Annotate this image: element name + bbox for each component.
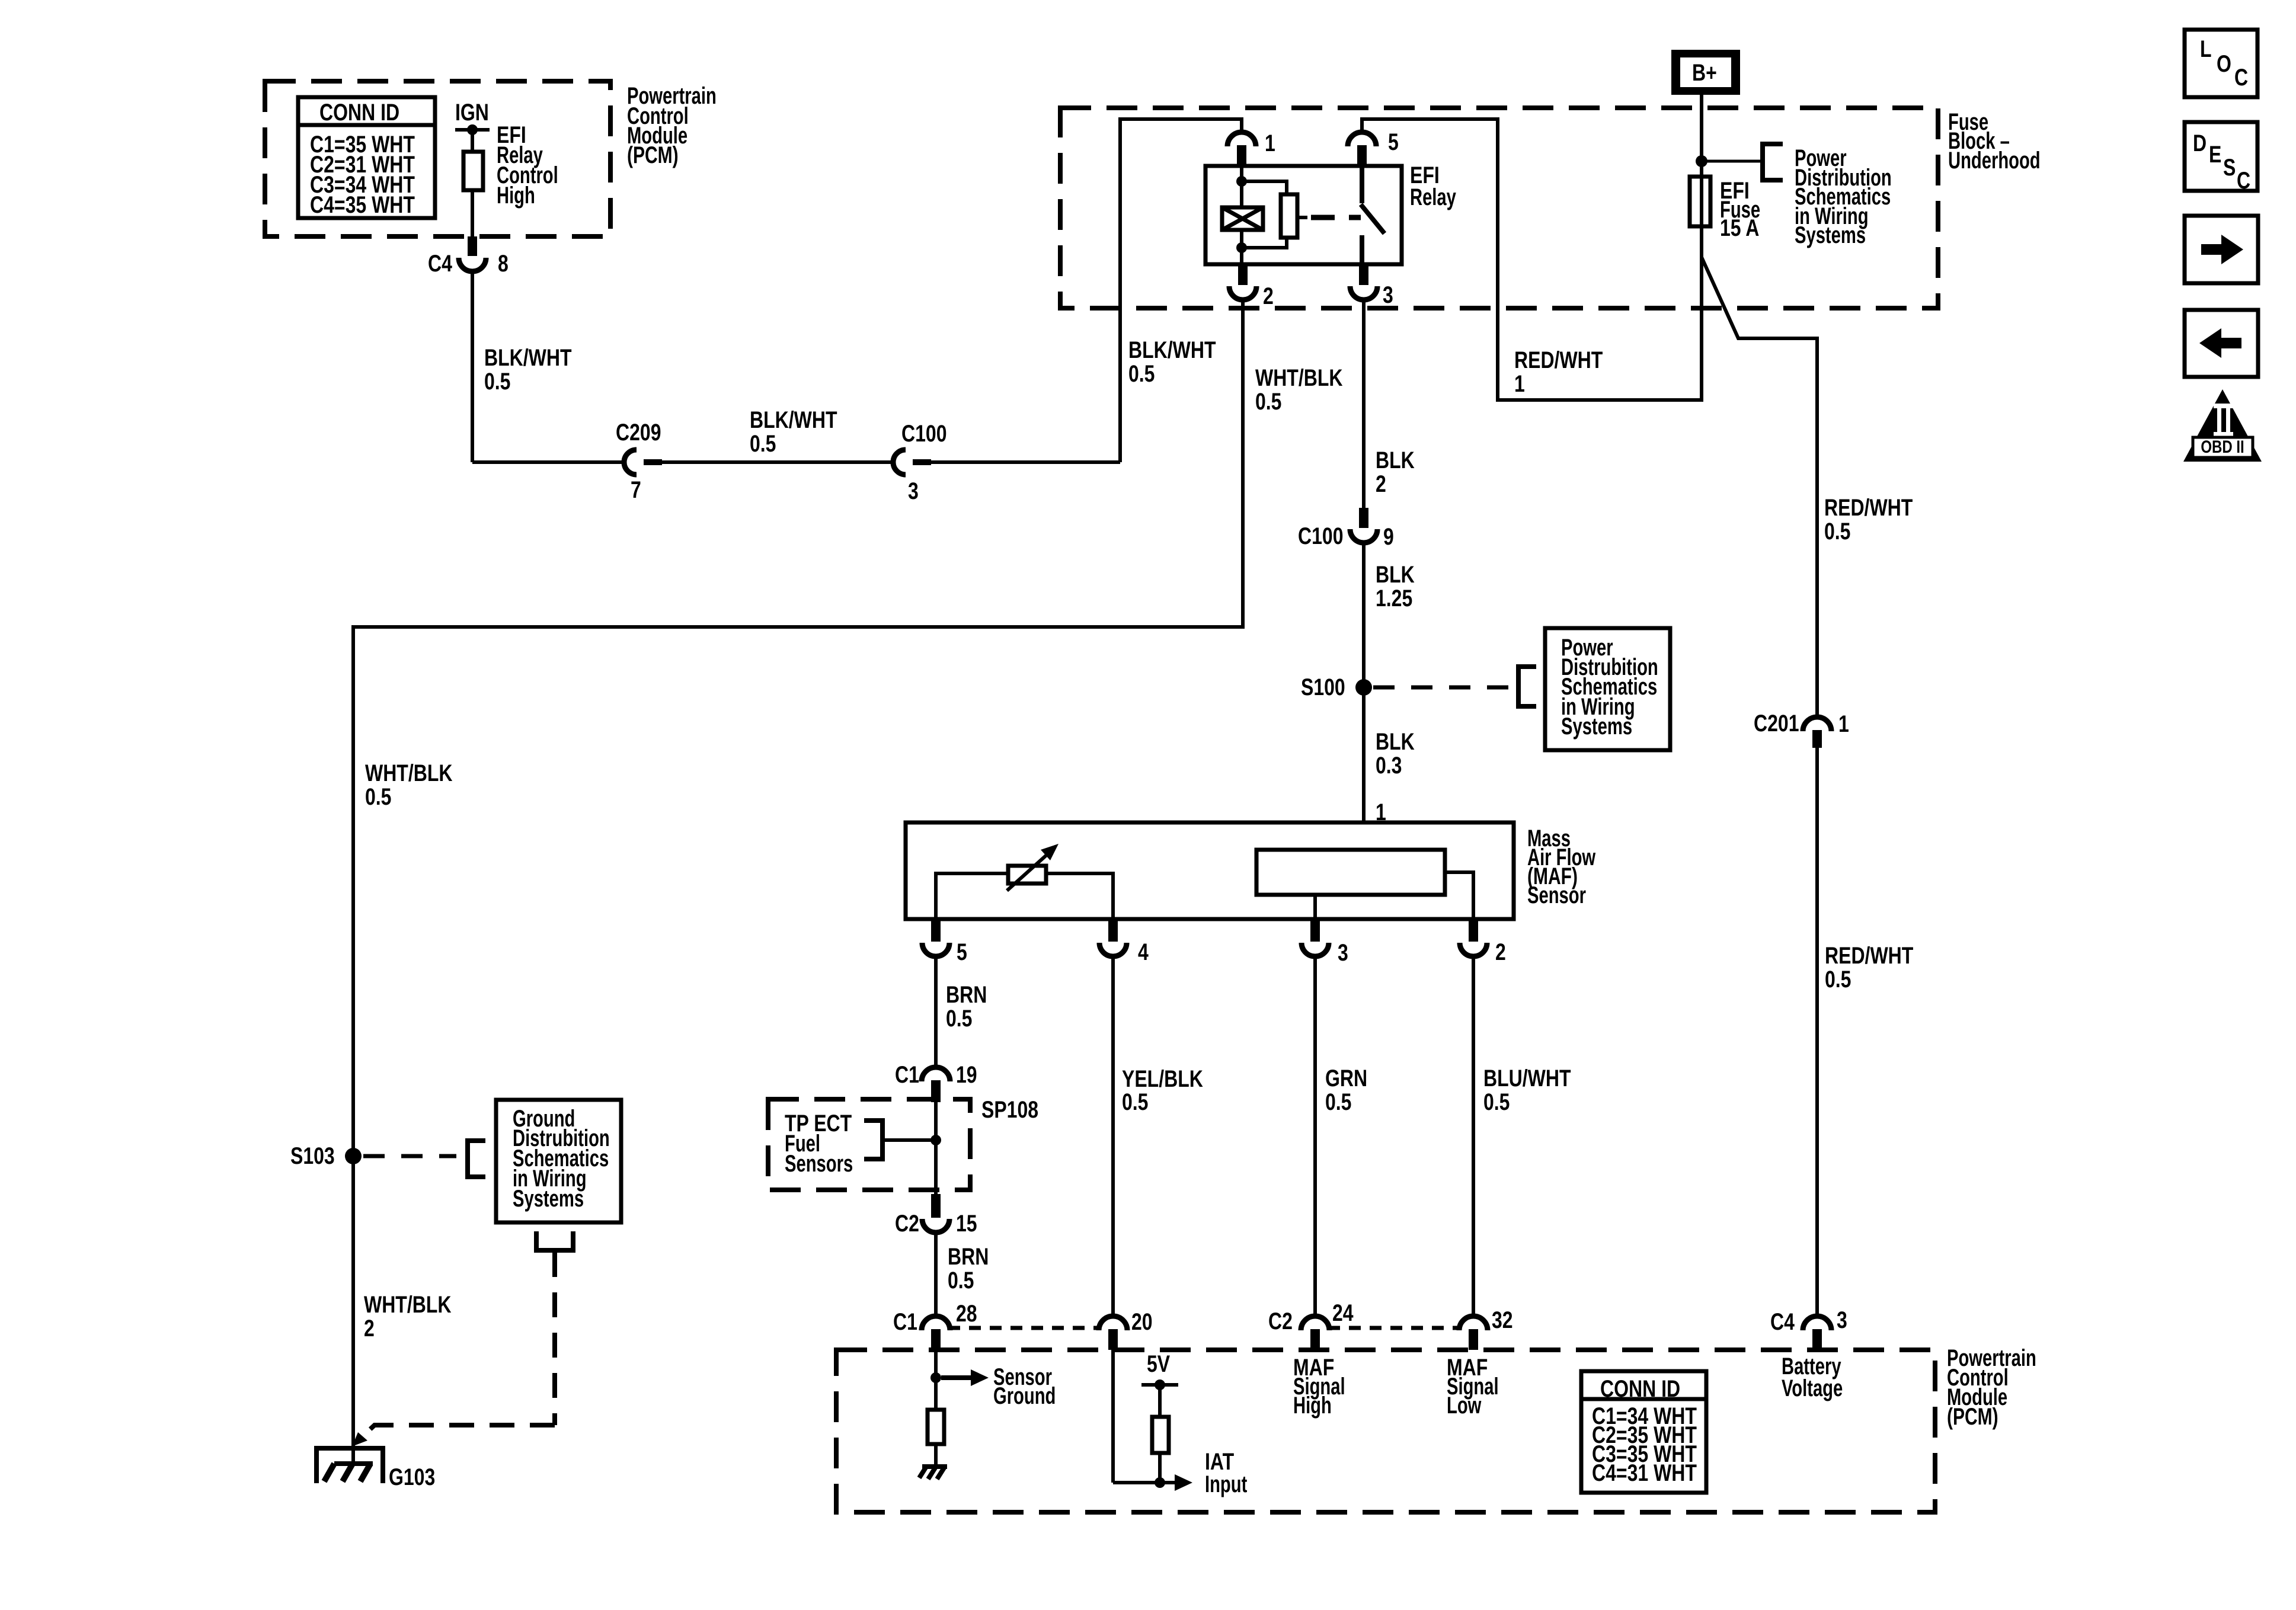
svg-text:C4: C4	[428, 250, 452, 277]
svg-text:BRN: BRN	[948, 1243, 989, 1270]
wire relay pin 3 down	[1362, 300, 1366, 510]
IAT input branch	[1113, 1350, 1248, 1497]
connector row dashed link C1/28 to 20	[948, 1326, 1100, 1330]
svg-text:20: 20	[1131, 1308, 1153, 1335]
wire C4/8 down to junction row	[471, 271, 474, 462]
Powertrain Control Module (PCM) box top-left	[265, 81, 717, 236]
svg-text:0.5: 0.5	[1483, 1089, 1510, 1115]
svg-text:(PCM): (PCM)	[627, 142, 679, 168]
label WHT/BLK 0.5 (left riser)	[365, 760, 453, 810]
svg-text:CONN ID: CONN ID	[1600, 1375, 1680, 1402]
label BRN 0.5 (lower)	[948, 1243, 989, 1294]
icon arrow left	[2185, 310, 2258, 377]
svg-text:Underhood: Underhood	[1948, 148, 2041, 174]
svg-text:S: S	[2223, 154, 2236, 181]
junction node at fuse top	[1696, 155, 1707, 167]
wire relay pin 2 to left riser	[353, 300, 1243, 1154]
svg-text:5V: 5V	[1147, 1350, 1170, 1377]
wire heater to pin 2	[1445, 872, 1473, 919]
bracket to power distrubition box	[1518, 667, 1536, 706]
svg-text:SP108: SP108	[981, 1096, 1038, 1123]
label WHT/BLK 0.5 (relay pin 2 wire)	[1255, 364, 1343, 415]
svg-text:5: 5	[1388, 129, 1399, 155]
svg-text:1.25: 1.25	[1376, 585, 1412, 612]
label BLK/WHT 0.5 (between C209 and C100)	[750, 406, 837, 457]
fuse EFI 15A	[1690, 177, 1760, 241]
wire MAF pin 4 down	[1111, 956, 1115, 1317]
svg-text:G103: G103	[389, 1464, 435, 1490]
connector C100 pin 9	[1298, 508, 1394, 550]
label RED/WHT 0.5 (lower)	[1825, 942, 1913, 993]
connector C1 pin 28	[893, 1300, 977, 1350]
ground (sensor ground internal)	[919, 1467, 947, 1479]
sensor ground branch in PCM	[930, 1350, 1056, 1410]
svg-text:19: 19	[956, 1061, 977, 1088]
label BLK/WHT 0.5	[484, 344, 572, 395]
svg-text:0.5: 0.5	[484, 368, 510, 395]
Ground Distrubition Schematics box	[496, 1100, 621, 1222]
svg-text:C100: C100	[1298, 523, 1344, 549]
wire C209 to C100	[662, 460, 893, 464]
wire fuse to relay pin 5 feed	[1362, 119, 1702, 400]
svg-text:BLK: BLK	[1376, 728, 1415, 755]
MAF internal wiring to pin 4	[1045, 873, 1113, 919]
wire IGN to resistor	[471, 130, 474, 152]
wire C100/9 to S100	[1362, 543, 1366, 687]
bracket TP ECT sensors to splice	[864, 1121, 931, 1159]
svg-text:0.5: 0.5	[1824, 518, 1850, 545]
MAF pin 4 connector	[1099, 919, 1149, 965]
wire heater to pin 3	[1313, 895, 1317, 919]
resistor IAT pull-up	[1152, 1417, 1169, 1453]
icon LOC	[2185, 30, 2257, 97]
svg-text:Low: Low	[1447, 1393, 1482, 1419]
wire C2/15 down to C1/28	[934, 1233, 938, 1317]
CONN ID table (PCM bottom)	[1581, 1371, 1706, 1493]
connector C4 pin 8	[428, 236, 509, 277]
svg-text:BLK/WHT: BLK/WHT	[1128, 337, 1216, 363]
svg-text:C201: C201	[1754, 710, 1799, 737]
relay switch	[1361, 166, 1384, 264]
svg-text:C100: C100	[901, 420, 947, 447]
svg-text:2: 2	[1495, 939, 1506, 965]
wire S103 down to G103	[351, 1156, 355, 1464]
relay coil circuit	[1236, 166, 1287, 264]
MAF pin 2 connector	[1460, 919, 1506, 965]
svg-text:0.5: 0.5	[365, 783, 391, 810]
label BRN 0.5	[946, 981, 987, 1032]
bracket below ground distrubition box	[536, 1231, 573, 1250]
connector pin 32	[1459, 1307, 1513, 1350]
label BLK/WHT 0.5 (riser)	[1128, 337, 1216, 387]
svg-text:8: 8	[498, 250, 509, 277]
svg-text:1: 1	[1514, 370, 1525, 397]
CONN ID table (PCM top)	[298, 97, 435, 218]
svg-text:Relay: Relay	[1410, 184, 1456, 211]
connector C4 pin 3	[1770, 1307, 1847, 1350]
svg-text:15 A: 15 A	[1720, 215, 1759, 241]
svg-text:WHT/BLK: WHT/BLK	[365, 760, 453, 786]
label RED/WHT 0.5 (upper)	[1824, 494, 1913, 545]
resistor sensor ground pulldown	[928, 1410, 944, 1444]
B+ terminal	[1671, 50, 1740, 95]
label YEL/BLK 0.5	[1122, 1065, 1203, 1115]
svg-text:BLK: BLK	[1376, 447, 1415, 473]
svg-text:BLK: BLK	[1376, 561, 1415, 588]
svg-text:BLK/WHT: BLK/WHT	[750, 406, 837, 433]
connector pin 20	[1099, 1308, 1153, 1350]
variable resistor (MAF element)	[1007, 844, 1059, 891]
resistor EFI relay control (in PCM)	[463, 152, 483, 190]
svg-text:Input: Input	[1205, 1471, 1248, 1498]
svg-text:BRN: BRN	[946, 981, 987, 1008]
svg-text:RED/WHT: RED/WHT	[1825, 942, 1913, 969]
wire fuse branch diagonal to right riser	[1702, 257, 1817, 716]
label WHT/BLK 2	[364, 1291, 452, 1342]
svg-text:C1: C1	[895, 1061, 919, 1088]
dashed reference from S100	[1373, 686, 1512, 690]
wire B+ down to fuse	[1700, 95, 1703, 177]
svg-text:E: E	[2209, 141, 2221, 168]
splice S103	[290, 1142, 362, 1169]
relay coil (X box)	[1222, 207, 1263, 230]
Powertrain Control Module (PCM) box bottom	[836, 1345, 2036, 1512]
connector C100 pin 3	[893, 420, 947, 504]
svg-text:High: High	[497, 183, 535, 209]
svg-text:WHT/BLK: WHT/BLK	[364, 1291, 452, 1318]
svg-text:3: 3	[1837, 1307, 1847, 1333]
svg-text:Systems: Systems	[513, 1186, 584, 1212]
svg-text:C4: C4	[1770, 1308, 1795, 1335]
svg-text:S103: S103	[290, 1142, 335, 1169]
splice S100	[1301, 674, 1372, 700]
wire horizontal to C209	[472, 460, 624, 464]
svg-text:3: 3	[1383, 281, 1393, 308]
svg-text:0.5: 0.5	[1122, 1089, 1148, 1115]
svg-text:3: 3	[908, 478, 919, 504]
svg-text:0.3: 0.3	[1376, 752, 1402, 779]
svg-text:C1: C1	[893, 1308, 917, 1335]
svg-text:C2: C2	[895, 1210, 919, 1237]
svg-text:C2: C2	[1268, 1308, 1293, 1334]
connector C201 pin 1	[1754, 710, 1849, 748]
wire MAF pin 5 down	[934, 956, 938, 1068]
wire riser up to relay pin 1	[1120, 119, 1242, 462]
svg-text:2: 2	[1376, 470, 1386, 497]
label RED/WHT 1	[1514, 347, 1603, 397]
icon DESC	[2185, 122, 2257, 194]
svg-text:Ground: Ground	[993, 1383, 1056, 1410]
svg-text:C4=31 WHT: C4=31 WHT	[1592, 1459, 1697, 1486]
svg-text:0.5: 0.5	[1825, 966, 1851, 993]
svg-text:C: C	[2237, 167, 2250, 194]
svg-text:GRN: GRN	[1325, 1065, 1367, 1092]
dashed drop from bracket to ground	[352, 1252, 555, 1446]
label BLU/WHT 0.5	[1483, 1065, 1571, 1115]
EFI relay box	[1205, 162, 1456, 264]
svg-text:15: 15	[956, 1210, 977, 1237]
svg-text:2: 2	[1263, 283, 1274, 309]
svg-text:0.5: 0.5	[946, 1005, 972, 1032]
svg-text:RED/WHT: RED/WHT	[1824, 494, 1913, 521]
wire resistor to PCM edge	[471, 190, 474, 238]
icon arrow right	[2185, 216, 2258, 283]
ground G103	[316, 1448, 435, 1490]
connector C2 pin 24	[1268, 1299, 1354, 1350]
connector C1 pin 19	[895, 1061, 977, 1102]
wire MAF pin 3 down	[1313, 956, 1317, 1317]
svg-text:0.5: 0.5	[750, 430, 776, 457]
svg-text:1: 1	[1265, 130, 1275, 156]
wire C100 to riser	[931, 460, 1120, 464]
relay internal resistor	[1281, 194, 1307, 238]
connector C209 pin 7	[616, 419, 662, 503]
bracket to ground distrubition box	[468, 1141, 485, 1177]
wire S100 down to MAF pin 1	[1362, 687, 1366, 824]
svg-text:0.5: 0.5	[1325, 1089, 1351, 1115]
svg-text:Systems: Systems	[1561, 713, 1632, 740]
label BLK 2	[1376, 447, 1415, 497]
connector C2 pin 15	[895, 1194, 977, 1237]
connector row dashed link C2/24 to 32	[1328, 1326, 1460, 1330]
svg-text:O: O	[2217, 50, 2231, 77]
wire node to bracket	[1702, 160, 1763, 163]
label BLK 1.25	[1376, 561, 1415, 612]
relay actuation dashed link	[1311, 215, 1361, 220]
wire through SP108	[934, 1102, 938, 1195]
label GRN 0.5	[1325, 1065, 1367, 1115]
svg-text:32: 32	[1492, 1307, 1513, 1333]
MAF internal wiring left	[936, 873, 1010, 919]
svg-text:WHT/BLK: WHT/BLK	[1255, 364, 1343, 391]
svg-text:28: 28	[956, 1300, 977, 1327]
svg-text:3: 3	[1338, 939, 1348, 966]
svg-text:4: 4	[1138, 939, 1149, 965]
icon OBD II triangle	[2183, 389, 2262, 462]
Mass Air Flow (MAF) Sensor box	[906, 822, 1596, 919]
svg-text:Voltage: Voltage	[1782, 1375, 1843, 1402]
svg-text:BLU/WHT: BLU/WHT	[1483, 1065, 1571, 1092]
svg-text:C: C	[2234, 64, 2248, 91]
wire resistor to ground	[934, 1444, 938, 1467]
wire C201 down to PCM C4/3	[1815, 748, 1819, 1317]
svg-text:9: 9	[1383, 523, 1394, 550]
svg-text:7: 7	[631, 476, 641, 503]
bracket to Power Distribution reference	[1763, 144, 1892, 248]
svg-text:24: 24	[1332, 1299, 1354, 1326]
Power Distrubition Schematics box	[1545, 628, 1670, 750]
svg-text:CONN ID: CONN ID	[319, 99, 399, 126]
svg-text:5: 5	[957, 939, 967, 965]
svg-text:Sensors: Sensors	[785, 1151, 853, 1177]
svg-text:0.5: 0.5	[948, 1267, 974, 1294]
svg-text:1: 1	[1838, 710, 1849, 737]
relay pin 5 connector	[1348, 129, 1399, 166]
label Battery Voltage	[1782, 1353, 1843, 1402]
Fuse Block - Underhood dashed box	[1060, 108, 2041, 308]
relay pin 3 connector	[1350, 264, 1393, 308]
label BLK 0.3	[1376, 728, 1415, 779]
MAF pin 3 connector	[1302, 919, 1348, 966]
svg-text:Sensor: Sensor	[1527, 882, 1586, 909]
svg-text:RED/WHT: RED/WHT	[1514, 347, 1603, 373]
svg-text:BLK/WHT: BLK/WHT	[484, 344, 572, 371]
svg-text:S100: S100	[1301, 674, 1345, 700]
splice node SP108	[930, 1135, 941, 1145]
relay pin 2 connector	[1229, 264, 1274, 309]
svg-text:(PCM): (PCM)	[1947, 1404, 1998, 1430]
MAF pin 5 connector	[922, 919, 967, 965]
MAF heater resistor	[1256, 850, 1445, 895]
relay pin 1 connector	[1227, 130, 1275, 166]
svg-text:B+: B+	[1692, 59, 1717, 86]
label MAF Signal Low	[1447, 1354, 1499, 1419]
dashed reference from S103	[363, 1154, 456, 1158]
svg-text:High: High	[1293, 1393, 1332, 1419]
splice SP108 dashed box	[768, 1096, 1038, 1190]
svg-text:0.5: 0.5	[1128, 360, 1155, 387]
svg-text:C209: C209	[616, 419, 661, 446]
svg-text:Systems: Systems	[1795, 222, 1866, 249]
svg-text:L: L	[2200, 36, 2212, 62]
svg-text:2: 2	[364, 1315, 375, 1342]
svg-text:D: D	[2193, 130, 2207, 156]
wire resistor to IAT node	[1158, 1453, 1162, 1483]
5V supply	[1141, 1350, 1178, 1417]
svg-text:IGN: IGN	[455, 99, 489, 126]
wire MAF pin 2 down	[1472, 956, 1475, 1317]
node IGN	[455, 99, 558, 209]
svg-text:C4=35 WHT: C4=35 WHT	[310, 191, 415, 218]
svg-text:OBD II: OBD II	[2201, 436, 2244, 456]
label MAF Signal High	[1293, 1354, 1345, 1419]
svg-text:0.5: 0.5	[1255, 388, 1281, 415]
